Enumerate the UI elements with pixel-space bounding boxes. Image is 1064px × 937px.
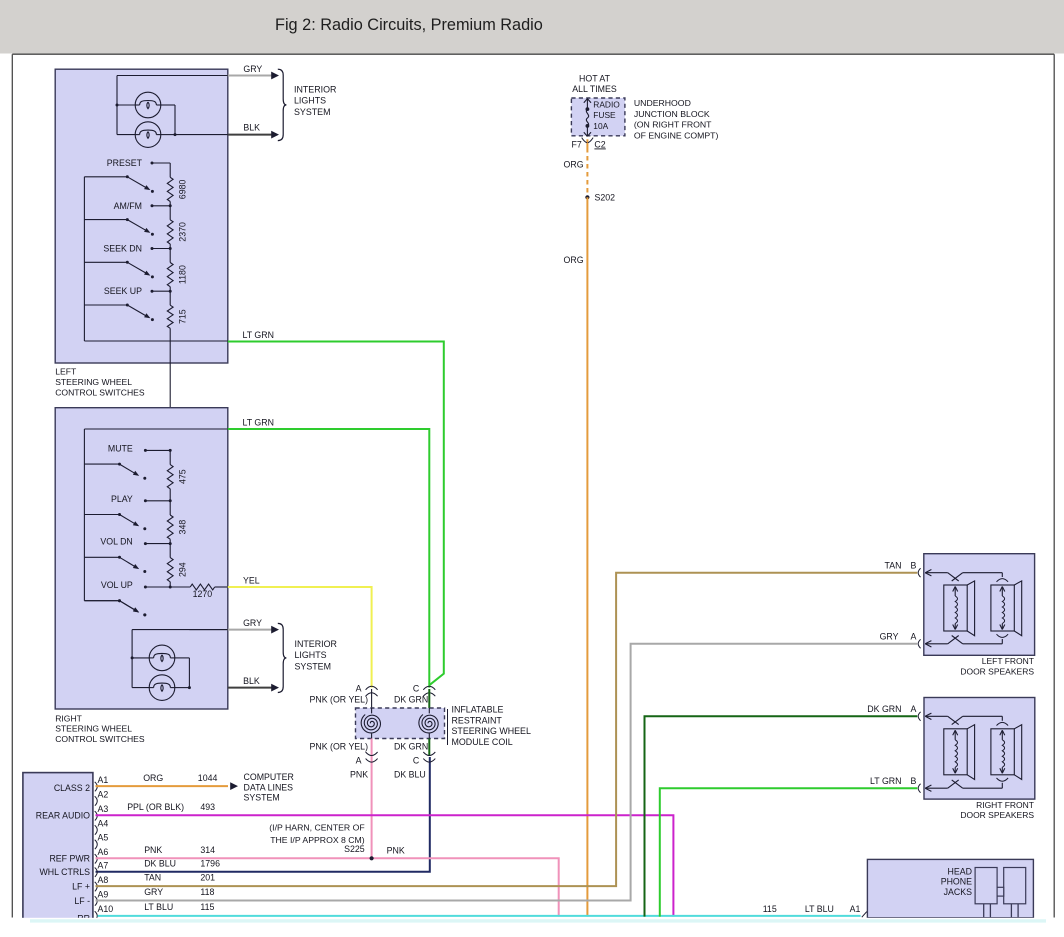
pin A3 connector arc bbox=[95, 811, 98, 820]
lamp circuit left bus wire bbox=[116, 76, 118, 135]
switch AM/FM arm bbox=[127, 220, 145, 231]
ORG wire A1 to computer data lines bbox=[96, 785, 229, 787]
speaker cone 1 bbox=[944, 729, 967, 775]
svg-text:RADIO: RADIO bbox=[593, 100, 620, 110]
svg-text:REF PWR: REF PWR bbox=[49, 853, 90, 863]
svg-text:10A: 10A bbox=[593, 121, 608, 131]
switch SEEK DN contact wire bbox=[152, 248, 170, 250]
jack 1 pins bbox=[983, 904, 985, 918]
speaker 1 top crossover bbox=[948, 716, 959, 724]
ORG wire stub at C2 bbox=[586, 139, 588, 148]
junction dot resistor chain at SEEK UP bbox=[169, 290, 172, 293]
speaker entry connector arc top bbox=[918, 712, 920, 721]
svg-text:PNK: PNK bbox=[387, 846, 405, 856]
PNK wire coil to splice S225 bbox=[371, 764, 373, 859]
svg-text:S225: S225 bbox=[344, 844, 365, 854]
svg-text:201: 201 bbox=[200, 873, 215, 883]
switch bottom arm arrowhead bbox=[133, 607, 139, 612]
switch bottom pivot dot bbox=[118, 599, 121, 602]
GRY wire A9 to left front speaker A bbox=[96, 644, 918, 901]
speaker cone 2 bbox=[991, 585, 1014, 631]
LT GRN wire from box1 to coil pin C bbox=[228, 342, 444, 686]
svg-text:A: A bbox=[356, 684, 362, 694]
svg-text:C2: C2 bbox=[594, 139, 605, 149]
svg-text:RESTRAINT: RESTRAINT bbox=[452, 715, 503, 725]
faded LT BLU wire remnant bbox=[30, 919, 1046, 922]
svg-text:BLK: BLK bbox=[243, 123, 260, 133]
svg-text:MODULE COIL: MODULE COIL bbox=[452, 737, 513, 747]
junction dot resistor chain at VOL UP bbox=[169, 586, 172, 589]
svg-text:PNK (OR YEL): PNK (OR YEL) bbox=[310, 695, 369, 705]
svg-text:(I/P HARN, CENTER OF: (I/P HARN, CENTER OF bbox=[269, 822, 364, 832]
switch VOL UP pivot dot bbox=[118, 599, 121, 602]
head phone jacks box bbox=[867, 859, 1033, 917]
YEL wire to coil pin A bbox=[228, 587, 372, 688]
ORG wire from S202 down bbox=[586, 197, 588, 916]
diagram frame border bbox=[12, 53, 1054, 55]
coil pin C lower connector bbox=[423, 752, 435, 756]
speaker 2 bottom arc bbox=[997, 634, 1009, 637]
speaker voice coil 2 bbox=[1001, 587, 1003, 596]
left steering wheel control switches box bbox=[55, 69, 228, 363]
resistor R 2370 bbox=[167, 220, 173, 244]
svg-text:118: 118 bbox=[200, 887, 214, 897]
svg-text:LT BLU: LT BLU bbox=[805, 904, 834, 914]
wire resistor 1270 to YEL exit bbox=[215, 586, 228, 588]
DK BLU wire coil to radio pin A7 bbox=[96, 757, 430, 872]
svg-text:A6: A6 bbox=[98, 847, 109, 857]
svg-text:TAN: TAN bbox=[144, 873, 161, 883]
switch SEEK DN pivot wire bbox=[84, 261, 127, 263]
speaker 2 top arc bbox=[997, 579, 1009, 582]
switch MUTE thrown contact dot bbox=[143, 477, 146, 480]
switch SEEK UP arm bbox=[127, 305, 145, 316]
splice S202 bbox=[585, 195, 589, 199]
svg-text:UNDERHOOD: UNDERHOOD bbox=[634, 98, 691, 108]
switch MUTE arm bbox=[120, 464, 135, 473]
switch PRESET thrown contact dot bbox=[151, 190, 154, 193]
switch SEEK UP arm arrowhead bbox=[144, 313, 150, 318]
switch PRESET arm arrowhead bbox=[144, 185, 150, 190]
pin A7 connector arc bbox=[95, 868, 98, 877]
junction dot resistor chain at SEEK DN bbox=[169, 247, 172, 250]
svg-text:INTERIOR: INTERIOR bbox=[295, 639, 337, 649]
switch VOL UP contact dot bbox=[144, 586, 147, 589]
switch SEEK DN arm arrowhead bbox=[144, 271, 150, 276]
svg-text:A2: A2 bbox=[98, 789, 109, 799]
svg-text:B: B bbox=[911, 561, 917, 571]
svg-text:PHONE: PHONE bbox=[941, 877, 972, 887]
svg-text:SYSTEM: SYSTEM bbox=[295, 661, 332, 671]
svg-text:MUTE: MUTE bbox=[108, 443, 133, 453]
svg-text:C: C bbox=[413, 684, 420, 694]
speaker internal top wire bbox=[926, 715, 948, 717]
pin A1 connector arc bbox=[95, 782, 98, 791]
junction dot lamp3 left bbox=[131, 656, 134, 659]
svg-text:GRY: GRY bbox=[243, 64, 262, 74]
switch AM/FM thrown contact dot bbox=[151, 233, 154, 236]
svg-text:GRY: GRY bbox=[243, 618, 262, 628]
svg-text:A5: A5 bbox=[98, 833, 109, 843]
wire pin A to coil box bbox=[371, 689, 373, 714]
svg-text:LIGHTS: LIGHTS bbox=[295, 650, 327, 660]
svg-text:LF +: LF + bbox=[72, 882, 90, 892]
coil pin C upper connector bbox=[423, 686, 435, 690]
svg-text:PNK: PNK bbox=[144, 845, 162, 855]
LT GRN wire to right front speaker B bbox=[660, 788, 918, 916]
switch MUTE arm arrowhead bbox=[133, 471, 139, 476]
wire lamp4 right to BLK exit bbox=[175, 687, 189, 689]
switch MUTE pivot dot bbox=[118, 463, 121, 466]
pin A8 connector arc bbox=[95, 882, 98, 891]
switch AM/FM contact dot bbox=[151, 204, 154, 207]
left front door speakers box bbox=[924, 554, 1035, 656]
svg-text:LT GRN: LT GRN bbox=[243, 330, 274, 340]
pin A2 connector arc bbox=[95, 796, 98, 805]
svg-text:1270: 1270 bbox=[193, 589, 213, 599]
pin A9 connector arc bbox=[95, 896, 98, 905]
switch bus left vertical (box1) bbox=[83, 177, 85, 341]
resistor R 475 bbox=[167, 465, 173, 489]
arrow computer data lines bbox=[230, 782, 238, 790]
speaker voice coil 2 bbox=[1001, 731, 1003, 740]
switch VOL UP arm bbox=[120, 601, 135, 610]
switch VOL UP contact wire bbox=[145, 586, 170, 588]
arrow GRY (box2) bbox=[271, 626, 279, 634]
switch SEEK DN thrown contact dot bbox=[151, 275, 154, 278]
svg-text:JUNCTION BLOCK: JUNCTION BLOCK bbox=[634, 109, 710, 119]
switch VOL DN contact dot bbox=[144, 542, 147, 545]
svg-text:FUSE: FUSE bbox=[593, 110, 616, 120]
svg-text:REAR AUDIO: REAR AUDIO bbox=[36, 810, 90, 820]
svg-text:DK BLU: DK BLU bbox=[394, 770, 426, 780]
speaker cone 1 bbox=[944, 585, 967, 631]
switch PRESET pivot dot bbox=[126, 175, 129, 178]
speaker entry arrow top bbox=[925, 713, 931, 716]
svg-text:A7: A7 bbox=[98, 861, 109, 871]
svg-text:JACKS: JACKS bbox=[944, 887, 972, 897]
switch bottom thrown contact dot bbox=[143, 613, 146, 616]
DK GRN wire coil box to lower connector C bbox=[428, 739, 430, 757]
svg-text:PNK (OR YEL): PNK (OR YEL) bbox=[310, 741, 369, 751]
svg-text:2370: 2370 bbox=[178, 222, 188, 242]
svg-text:DK GRN: DK GRN bbox=[394, 741, 428, 751]
switch PRESET pivot wire bbox=[84, 176, 127, 178]
lamp circuit top wire (box2) bbox=[132, 629, 228, 631]
speaker internal bottom wire bbox=[926, 643, 948, 645]
switch VOL UP pivot wire bbox=[84, 600, 119, 602]
svg-text:RIGHT: RIGHT bbox=[55, 713, 82, 723]
switch AM/FM pivot wire bbox=[84, 219, 127, 221]
speaker 1 bottom crossover bbox=[948, 636, 959, 644]
svg-text:S202: S202 bbox=[595, 193, 616, 203]
GRY wire to interior lights bbox=[228, 75, 272, 77]
resistor R 294 bbox=[167, 558, 173, 582]
wire lamp1 left bbox=[117, 104, 135, 106]
svg-text:BLK: BLK bbox=[243, 676, 260, 686]
svg-text:RIGHT FRONT: RIGHT FRONT bbox=[976, 800, 1034, 810]
switch VOL DN pivot dot bbox=[118, 556, 121, 559]
switch VOL UP thrown contact dot bbox=[143, 613, 146, 616]
svg-text:314: 314 bbox=[200, 845, 215, 855]
wire lamp3 right bbox=[175, 657, 189, 659]
DK GRN wire pin C to coil box bbox=[428, 689, 430, 714]
wire lamp2 right to BLK exit bbox=[161, 134, 175, 136]
switch VOL DN arm bbox=[120, 557, 135, 566]
svg-text:AM/FM: AM/FM bbox=[114, 201, 142, 211]
wire VOL UP to resistor 1270 bbox=[170, 586, 190, 588]
svg-text:LIGHTS: LIGHTS bbox=[294, 96, 326, 106]
right steering wheel control switches box bbox=[55, 408, 228, 709]
svg-text:PPL (OR BLK): PPL (OR BLK) bbox=[127, 802, 184, 812]
svg-text:715: 715 bbox=[178, 309, 188, 324]
svg-text:INFLATABLE: INFLATABLE bbox=[452, 705, 504, 715]
switch PLAY pivot dot bbox=[118, 513, 121, 516]
switch PRESET contact wire bbox=[152, 162, 170, 164]
speaker entry arrow top bbox=[925, 570, 931, 573]
svg-text:F7: F7 bbox=[572, 139, 582, 149]
resistor R 348 bbox=[167, 515, 173, 539]
svg-text:STEERING WHEEL: STEERING WHEEL bbox=[55, 377, 132, 387]
svg-text:SEEK UP: SEEK UP bbox=[104, 286, 142, 296]
svg-text:DOOR SPEAKERS: DOOR SPEAKERS bbox=[960, 667, 1034, 677]
arrow BLK bbox=[271, 131, 279, 139]
switch PLAY arm arrowhead bbox=[133, 521, 139, 526]
junction dot lamp1 left bbox=[116, 104, 119, 107]
svg-text:LEFT: LEFT bbox=[55, 367, 77, 377]
resistor chain vertical link to box2 bbox=[169, 328, 171, 450]
svg-text:CONTROL SWITCHES: CONTROL SWITCHES bbox=[55, 734, 145, 744]
svg-text:GRY: GRY bbox=[880, 632, 899, 642]
speaker entry arrow bottom bbox=[925, 785, 931, 788]
svg-text:SYSTEM: SYSTEM bbox=[294, 107, 331, 117]
svg-text:115: 115 bbox=[763, 904, 777, 914]
head phone jack pin mark bbox=[862, 912, 867, 918]
switch AM/FM contact wire bbox=[152, 205, 170, 207]
switch PLAY contact dot bbox=[144, 499, 147, 502]
switch MUTE contact wire bbox=[145, 449, 170, 451]
svg-text:ORG: ORG bbox=[564, 160, 584, 170]
pin A4 connector arc bbox=[95, 825, 98, 834]
LT GRN wire from box2 to coil pin C bbox=[228, 429, 429, 688]
jack link bbox=[997, 887, 1004, 896]
bottom white fade bbox=[0, 918, 1064, 932]
coil pin A lower connector bbox=[366, 752, 378, 756]
svg-text:DOOR SPEAKERS: DOOR SPEAKERS bbox=[960, 810, 1034, 820]
switch VOL DN arm arrowhead bbox=[133, 564, 139, 569]
speaker internal bottom wire bbox=[926, 787, 948, 789]
svg-text:HEAD: HEAD bbox=[948, 867, 972, 877]
junction dot lamp2 right bbox=[174, 133, 177, 136]
svg-text:WHL CTRLS: WHL CTRLS bbox=[39, 867, 90, 877]
coil L2 spiral (pin C) bbox=[419, 714, 438, 732]
switch PLAY pivot wire bbox=[84, 514, 119, 516]
svg-text:VOL UP: VOL UP bbox=[101, 580, 133, 590]
switch PRESET contact dot bbox=[151, 162, 154, 165]
speaker voice coil 1 bbox=[954, 587, 956, 596]
BLK wire to interior lights bbox=[175, 134, 228, 136]
wire lamp4 left bbox=[132, 687, 149, 689]
lamp E3 (illumination) bbox=[149, 645, 175, 671]
switch bottom pivot wire bbox=[84, 600, 119, 602]
svg-text:SEEK DN: SEEK DN bbox=[103, 244, 142, 254]
svg-text:DK GRN: DK GRN bbox=[394, 695, 428, 705]
resistor R 1180 bbox=[167, 263, 173, 287]
svg-text:1796: 1796 bbox=[200, 858, 220, 868]
switch VOL UP arm arrowhead bbox=[133, 607, 139, 612]
svg-text:LT GRN: LT GRN bbox=[870, 776, 901, 786]
wire lamp3 left bbox=[132, 657, 149, 659]
LT BLU wire A10 to head phone jacks bbox=[98, 915, 861, 917]
switch AM/FM arm arrowhead bbox=[144, 228, 150, 233]
PNK wire A6 via S225 bbox=[96, 858, 559, 916]
switch MUTE contact dot bbox=[144, 449, 147, 452]
arrow BLK (box2) bbox=[271, 684, 279, 692]
resistor chain vertical segments (box2) bbox=[169, 450, 171, 464]
lamp E2 (illumination) bbox=[135, 122, 161, 148]
svg-text:1180: 1180 bbox=[178, 265, 188, 284]
svg-text:GRY: GRY bbox=[144, 887, 163, 897]
speaker entry connector arc top bbox=[918, 568, 920, 577]
svg-text:STEERING WHEEL: STEERING WHEEL bbox=[452, 726, 531, 736]
speaker voice coil 1 bbox=[954, 731, 956, 740]
junction dot resistor chain at VOL DN bbox=[169, 542, 172, 545]
switch SEEK UP thrown contact dot bbox=[151, 318, 154, 321]
svg-text:115: 115 bbox=[200, 902, 214, 912]
svg-text:ORG: ORG bbox=[143, 773, 163, 783]
switch SEEK UP contact dot bbox=[151, 290, 154, 293]
svg-text:HOT AT: HOT AT bbox=[579, 74, 611, 84]
svg-text:A4: A4 bbox=[98, 818, 109, 828]
switch bus bottom wire (box1) bbox=[84, 340, 227, 342]
speaker 1 bottom crossover bbox=[948, 780, 959, 788]
junction dot resistor chain at MUTE bbox=[169, 449, 172, 452]
right front door speakers box bbox=[924, 698, 1035, 800]
jack 2 pins bbox=[1010, 904, 1012, 918]
title bar bbox=[0, 0, 1064, 54]
svg-text:LF -: LF - bbox=[74, 896, 90, 906]
switch PLAY thrown contact dot bbox=[143, 527, 146, 530]
svg-text:A1: A1 bbox=[850, 904, 861, 914]
switch SEEK UP pivot wire bbox=[84, 304, 127, 306]
resistor chain vertical segments (box1) bbox=[169, 163, 171, 177]
switch SEEK UP contact wire bbox=[152, 290, 170, 292]
speaker cone 2 bbox=[991, 729, 1014, 775]
svg-text:A: A bbox=[911, 632, 917, 642]
switch MUTE pivot wire bbox=[84, 463, 119, 465]
svg-text:C: C bbox=[413, 756, 420, 766]
svg-text:TAN: TAN bbox=[885, 561, 902, 571]
GRY wire to interior lights (box2) bbox=[189, 629, 227, 631]
brace interior lights system (bottom) bbox=[278, 623, 287, 692]
switch AM/FM pivot dot bbox=[126, 218, 129, 221]
svg-text:Fig 2: Radio Circuits, Premium: Fig 2: Radio Circuits, Premium Radio bbox=[275, 16, 543, 34]
svg-text:YEL: YEL bbox=[243, 575, 260, 585]
svg-text:DATA LINES: DATA LINES bbox=[244, 782, 294, 792]
svg-text:CONTROL SWITCHES: CONTROL SWITCHES bbox=[55, 388, 145, 398]
svg-text:1044: 1044 bbox=[198, 773, 218, 783]
switch PRESET arm bbox=[127, 177, 145, 188]
brace interior lights system (top) bbox=[278, 69, 287, 140]
svg-text:A: A bbox=[911, 704, 917, 714]
switch bus left vertical (box2) bbox=[83, 429, 85, 601]
svg-text:6980: 6980 bbox=[178, 180, 188, 200]
lamp E4 (illumination) bbox=[149, 675, 175, 701]
svg-text:STEERING WHEEL: STEERING WHEEL bbox=[55, 724, 132, 734]
svg-text:B: B bbox=[911, 776, 917, 786]
switch bottom arm bbox=[120, 601, 135, 610]
svg-text:PRESET: PRESET bbox=[107, 158, 143, 168]
fuse F7 RADIO FUSE 10A bbox=[586, 99, 588, 109]
radio connector block bbox=[23, 773, 93, 926]
lamp circuit left vertical (box2) bbox=[131, 630, 133, 688]
svg-text:A10: A10 bbox=[98, 904, 114, 914]
junction dot resistor chain at PLAY bbox=[169, 499, 172, 502]
svg-text:A3: A3 bbox=[98, 804, 109, 814]
resistor R 1270 bbox=[190, 584, 215, 590]
switch PLAY arm bbox=[120, 515, 135, 524]
svg-text:ORG: ORG bbox=[564, 255, 584, 265]
PPL (OR BLK) wire A3 to radio bbox=[96, 815, 674, 916]
speaker entry connector arc bottom bbox=[918, 784, 920, 793]
svg-text:VOL DN: VOL DN bbox=[100, 537, 132, 547]
svg-text:(ON RIGHT FRONT: (ON RIGHT FRONT bbox=[634, 120, 712, 130]
pin A10 connector arc bbox=[95, 911, 98, 920]
svg-text:LT GRN: LT GRN bbox=[243, 418, 274, 428]
splice S225 dot bbox=[370, 856, 374, 860]
junction dot lamp4 right bbox=[188, 686, 191, 689]
switch SEEK UP pivot dot bbox=[126, 304, 129, 307]
svg-text:PNK: PNK bbox=[350, 770, 368, 780]
speaker 2 bottom arc bbox=[997, 778, 1009, 781]
resistor R 6980 bbox=[167, 177, 173, 201]
DK GRN wire to right front speaker A bbox=[645, 716, 918, 916]
head phone jack 2 bbox=[1004, 868, 1026, 904]
resistor R 715 bbox=[167, 305, 173, 328]
head phone jack 1 bbox=[975, 868, 997, 904]
svg-text:LT BLU: LT BLU bbox=[144, 902, 173, 912]
coil L1 spiral (pin A) bbox=[361, 714, 380, 732]
switch VOL DN pivot wire bbox=[84, 556, 119, 558]
ORG wire dashed segment from C2 bbox=[586, 148, 588, 197]
speaker internal top wire bbox=[926, 572, 948, 574]
arrow GRY bbox=[271, 72, 279, 80]
switch VOL DN contact wire bbox=[145, 543, 170, 545]
svg-text:348: 348 bbox=[178, 520, 188, 535]
svg-text:INTERIOR: INTERIOR bbox=[294, 85, 336, 95]
svg-text:ALL TIMES: ALL TIMES bbox=[572, 84, 617, 94]
switch VOL DN thrown contact dot bbox=[143, 570, 146, 573]
coil pin A upper connector bbox=[366, 686, 378, 690]
svg-text:A1: A1 bbox=[98, 775, 109, 785]
svg-text:294: 294 bbox=[178, 562, 188, 577]
speaker entry arrow bottom bbox=[925, 641, 931, 644]
underhood junction block (dashed) bbox=[571, 98, 625, 136]
svg-text:A9: A9 bbox=[98, 889, 109, 899]
svg-text:LEFT FRONT: LEFT FRONT bbox=[982, 656, 1034, 666]
svg-text:DK BLU: DK BLU bbox=[144, 858, 176, 868]
speaker 1 top crossover bbox=[948, 573, 959, 581]
switch PLAY contact wire bbox=[145, 500, 170, 502]
svg-text:SYSTEM: SYSTEM bbox=[244, 793, 280, 803]
label bracket line bbox=[447, 709, 449, 745]
junction dot resistor chain at AM/FM bbox=[169, 204, 172, 207]
svg-text:A8: A8 bbox=[98, 875, 109, 885]
svg-text:CLASS 2: CLASS 2 bbox=[54, 783, 90, 793]
connector C2 under fuse bbox=[582, 138, 587, 143]
speaker 2 top arc bbox=[997, 722, 1009, 725]
top bus wire (box2) bbox=[84, 428, 227, 430]
